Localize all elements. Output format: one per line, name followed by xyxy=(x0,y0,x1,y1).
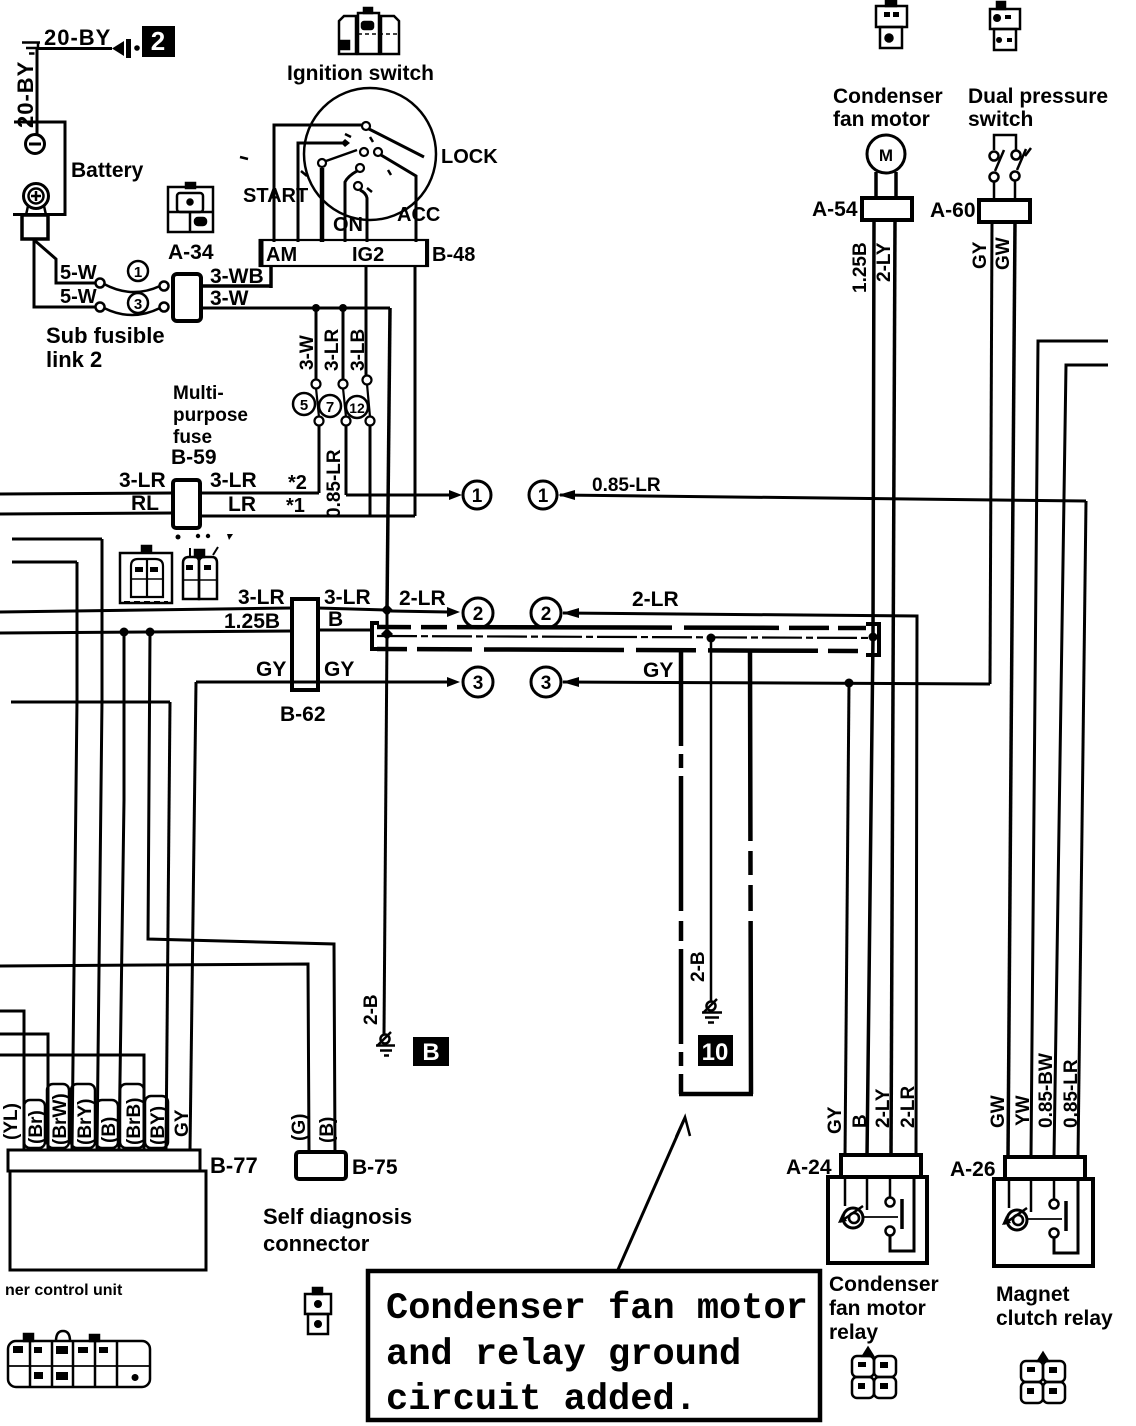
dual pressure switch S1 xyxy=(990,135,1032,200)
svg-text:2-LY: 2-LY xyxy=(873,1088,894,1128)
svg-text:ON: ON xyxy=(333,214,363,236)
svg-text:clutch relay: clutch relay xyxy=(996,1307,1113,1330)
svg-text:fan motor: fan motor xyxy=(833,108,930,131)
node 1 circle a xyxy=(463,481,491,509)
svg-text:switch: switch xyxy=(968,108,1033,131)
wire B ground (dash-dot) xyxy=(377,636,880,638)
svg-text:5: 5 xyxy=(300,397,308,414)
added-circuit highlight left vertical xyxy=(679,651,684,1094)
svg-text:B: B xyxy=(328,608,343,631)
wire 2-LR right xyxy=(562,608,917,1157)
ignition lever LOCK xyxy=(369,129,424,157)
svg-text:1.25B: 1.25B xyxy=(224,610,280,633)
wire 0.85-LR down to A-26 xyxy=(1078,501,1086,1157)
svg-text:B: B xyxy=(422,1039,439,1066)
label 1.25B vertical xyxy=(850,242,871,293)
wire GY left of B-62 xyxy=(196,681,318,684)
svg-text:and relay ground: and relay ground xyxy=(386,1334,741,1376)
connector B-59 xyxy=(173,480,200,528)
wire 0.85-LR line1 right xyxy=(558,490,1086,501)
svg-text:1: 1 xyxy=(472,486,483,507)
label 3-LR left of B-62 xyxy=(238,586,285,609)
motor M1 condenser fan xyxy=(867,135,905,198)
svg-text:LR: LR xyxy=(228,493,256,516)
ignition position dashes xyxy=(240,134,391,192)
fusible link element 1 xyxy=(96,279,169,293)
wire 20-BY vertical xyxy=(36,49,39,135)
label 20-BY xyxy=(44,25,111,50)
svg-text:10: 10 xyxy=(702,1039,729,1066)
connector box B-48 (AM IG2) xyxy=(260,239,428,267)
node 2 circle a xyxy=(463,598,493,628)
wire YL stub xyxy=(0,1011,24,1150)
ignition center contacts xyxy=(360,148,382,156)
svg-text:IG2: IG2 xyxy=(352,244,384,266)
label AM xyxy=(266,244,297,266)
svg-text:(BrW): (BrW) xyxy=(50,1093,71,1145)
label Battery xyxy=(71,159,144,182)
label A-34 xyxy=(168,241,214,264)
label LR *1 xyxy=(228,493,305,517)
added-circuit highlight right cap xyxy=(866,624,879,655)
svg-text:1.25B: 1.25B xyxy=(850,242,871,293)
label Sub fusible link 2 xyxy=(46,323,165,372)
svg-text:(G): (G) xyxy=(289,1114,310,1141)
svg-text:3-LR: 3-LR xyxy=(210,469,257,492)
label B-59 xyxy=(171,446,217,469)
svg-text:1: 1 xyxy=(538,486,549,507)
label 3-LR *2 xyxy=(210,469,307,494)
fuse 7 xyxy=(339,380,351,426)
svg-text:GY: GY xyxy=(970,241,991,269)
added-circuit highlight bottom xyxy=(679,1092,753,1097)
label 3-W vertical xyxy=(297,335,318,370)
battery negative terminal xyxy=(26,135,45,154)
wire 1.25B motor down xyxy=(867,220,874,1157)
label GW at A-26 xyxy=(988,1095,1009,1128)
svg-text:YW: YW xyxy=(1013,1095,1034,1126)
svg-text:2-LY: 2-LY xyxy=(874,242,895,282)
junction dot 1.25B/B-77 B xyxy=(120,628,129,637)
wire 1.25B into B-62 xyxy=(0,631,292,633)
svg-text:3: 3 xyxy=(473,673,484,694)
svg-text:3: 3 xyxy=(134,296,142,313)
svg-text:2-LR: 2-LR xyxy=(898,1086,919,1129)
svg-text:Sub fusible: Sub fusible xyxy=(46,323,165,348)
svg-text:A-60: A-60 xyxy=(930,199,976,222)
svg-text:GW: GW xyxy=(988,1095,1009,1128)
wire 3-W branch vertical xyxy=(315,308,318,380)
label 3-LR vertical xyxy=(322,329,343,372)
svg-text:(Br): (Br) xyxy=(26,1110,47,1144)
svg-text:Dual pressure: Dual pressure xyxy=(968,85,1108,108)
svg-text:purpose: purpose xyxy=(173,405,248,426)
wire fuse12 out to *1 xyxy=(369,425,372,516)
wire B vertical to B-77 xyxy=(119,632,124,1150)
wire line1 left segment xyxy=(346,490,462,500)
svg-text:*1: *1 xyxy=(286,495,305,517)
wire 5-W upper xyxy=(33,239,96,283)
wire Br stub xyxy=(0,1034,48,1150)
svg-text:A-34: A-34 xyxy=(168,241,214,264)
control unit box xyxy=(10,1171,206,1270)
note text xyxy=(386,1288,808,1421)
circled fuse number 5 xyxy=(293,393,315,415)
wire START contact xyxy=(298,139,350,242)
svg-text:(BrB): (BrB) xyxy=(124,1098,145,1146)
svg-text:circuit added.: circuit added. xyxy=(386,1379,697,1421)
battery frame xyxy=(13,122,65,215)
circled fuse number 12 xyxy=(346,396,368,418)
wire 3-LR branch vertical xyxy=(342,308,345,380)
wire BrW vertical xyxy=(72,562,77,1150)
label (BY) boxed xyxy=(145,1096,169,1148)
label GY vertical xyxy=(970,241,991,269)
label Ignition switch xyxy=(287,62,434,85)
label 2-LR xyxy=(399,587,446,610)
connector icon ignition switch xyxy=(339,8,399,54)
ignition switch circle xyxy=(304,88,436,220)
relay K1 condenser fan motor relay box xyxy=(828,1177,927,1263)
svg-text:A-26: A-26 xyxy=(950,1158,996,1181)
wire 20-BY horizontal xyxy=(38,47,112,50)
wire RL left feed xyxy=(0,513,173,514)
battery positive terminal xyxy=(24,184,49,216)
svg-text:link 2: link 2 xyxy=(46,347,102,372)
label (YL) xyxy=(1,1103,22,1140)
label LOCK xyxy=(441,146,498,168)
connector A-26 xyxy=(1005,1157,1085,1179)
label GW vertical xyxy=(993,237,1014,270)
label IG2 xyxy=(352,244,384,266)
svg-text:Magnet: Magnet xyxy=(996,1283,1070,1306)
label RL xyxy=(131,492,159,515)
wire fuse7 out to line1 xyxy=(345,425,348,495)
label 2-B right xyxy=(688,951,709,982)
wire GY dual pressure down xyxy=(990,222,992,684)
label (B) at B-75 xyxy=(317,1117,338,1143)
wire stub to BrY xyxy=(12,538,102,541)
svg-text:START: START xyxy=(243,185,308,207)
added-circuit highlight top line xyxy=(377,627,866,628)
svg-text:GW: GW xyxy=(993,237,1014,270)
svg-text:LOCK: LOCK xyxy=(441,146,498,168)
label 1.25B xyxy=(224,610,280,633)
label GY at A-24 xyxy=(825,1106,846,1134)
svg-text:Battery: Battery xyxy=(71,159,144,182)
wire LR *1 xyxy=(200,515,415,518)
label 0.85-LR line1 xyxy=(592,475,661,496)
label (BrY) boxed xyxy=(71,1084,96,1148)
wire IG2 down xyxy=(365,266,368,376)
label GY line3 xyxy=(643,659,673,682)
svg-text:fuse: fuse xyxy=(173,427,212,448)
svg-text:20-BY: 20-BY xyxy=(13,61,38,128)
connector icon above condenser fan motor xyxy=(876,0,907,48)
svg-text:(YL): (YL) xyxy=(1,1103,22,1140)
ground 2-B right xyxy=(702,999,722,1023)
wire 3-LR out of B-62 xyxy=(318,608,387,610)
wire 0.85-BW stub right xyxy=(1054,365,1108,1157)
connector icon A-34 xyxy=(168,183,213,232)
svg-text:A-54: A-54 xyxy=(812,198,858,221)
wire 2-B right down xyxy=(710,638,713,1001)
svg-text:GY: GY xyxy=(256,658,286,681)
label YW at A-26 xyxy=(1013,1095,1034,1126)
label Condenser fan motor xyxy=(833,85,943,131)
svg-text:B-77: B-77 xyxy=(210,1153,258,1178)
ground 2-B left xyxy=(376,1032,395,1056)
label GY right xyxy=(324,658,354,681)
junction dot 3-W/fuse5 xyxy=(312,304,320,312)
label (B) boxed xyxy=(96,1100,120,1148)
svg-text:Multi-: Multi- xyxy=(173,383,224,404)
label Condenser fan motor relay xyxy=(829,1273,939,1344)
label 3-WB xyxy=(210,265,264,288)
wire 3-LR left feed xyxy=(0,493,173,494)
svg-text:ACC: ACC xyxy=(397,204,440,226)
svg-text:GY: GY xyxy=(643,659,673,682)
node marker 2 (black box) xyxy=(142,26,175,57)
label B-75 xyxy=(352,1156,398,1179)
label (Br) boxed xyxy=(24,1100,47,1148)
fusible link element 3 xyxy=(96,303,169,316)
svg-text:5-W: 5-W xyxy=(60,286,97,308)
svg-text:3-LR: 3-LR xyxy=(322,329,343,372)
label B at A-24 xyxy=(850,1114,871,1128)
svg-text:GY: GY xyxy=(825,1106,846,1134)
label B-62 xyxy=(280,703,326,726)
label (BrW) boxed xyxy=(47,1084,71,1148)
node 3 circle a xyxy=(463,667,493,697)
label Dual pressure switch xyxy=(968,85,1108,131)
svg-text:2: 2 xyxy=(473,604,484,625)
wire BrB stub xyxy=(0,1055,144,1150)
relay K2 magnet clutch relay box xyxy=(994,1179,1093,1266)
wire GY down to A-24 xyxy=(845,683,849,1157)
added-circuit highlight bottom line xyxy=(377,649,866,651)
svg-text:2: 2 xyxy=(151,26,165,56)
label 2-LY at A-24 xyxy=(873,1088,894,1128)
svg-text:3-LR: 3-LR xyxy=(324,586,371,609)
svg-text:5-W: 5-W xyxy=(60,262,97,284)
connector B-77 xyxy=(8,1150,200,1171)
svg-text:B: B xyxy=(850,1114,871,1128)
svg-text:A-24: A-24 xyxy=(786,1156,832,1179)
wire ACC xyxy=(381,155,416,242)
label 20-BY vertical xyxy=(13,61,38,128)
svg-text:*2: *2 xyxy=(288,472,307,494)
relay K2 internals xyxy=(1002,1179,1078,1253)
wire 5-W lower xyxy=(34,239,96,307)
wire 3-LR *2 xyxy=(200,492,319,495)
connector B-62 xyxy=(292,599,318,690)
wire ACC down to LR xyxy=(414,267,417,516)
label B-77 xyxy=(210,1153,258,1178)
circled number 3 xyxy=(128,293,148,313)
svg-text:M: M xyxy=(879,146,893,165)
wire GW dual pressure down xyxy=(1008,222,1015,1157)
wire AM to LOCK contact xyxy=(274,122,370,242)
junction dot 1.25B/B-75 B xyxy=(146,628,155,637)
label GY at B-77 xyxy=(172,1109,193,1137)
label 3-LR left xyxy=(119,469,166,492)
connector A-60 xyxy=(979,200,1030,222)
node 2 circle b xyxy=(531,598,561,628)
wire BY stub xyxy=(11,701,170,704)
label 5-W upper xyxy=(60,262,97,284)
svg-text:GY: GY xyxy=(324,658,354,681)
wire B to B-75 xyxy=(148,632,335,1152)
svg-text:2-B: 2-B xyxy=(688,951,709,982)
wire 2-B left down xyxy=(384,634,387,1034)
svg-text:AM: AM xyxy=(266,244,297,266)
svg-text:2-LR: 2-LR xyxy=(632,588,679,611)
svg-text:3-W: 3-W xyxy=(210,287,249,310)
svg-text:B-59: B-59 xyxy=(171,446,217,469)
ground G1 (20-BY body ground) xyxy=(22,42,40,54)
wire 3-W xyxy=(201,307,390,310)
svg-text:(BY): (BY) xyxy=(148,1106,169,1145)
svg-text:connector: connector xyxy=(263,1231,370,1256)
svg-text:GY: GY xyxy=(172,1109,193,1137)
label control unit xyxy=(5,1282,123,1299)
wire 3-WB xyxy=(201,266,271,288)
node 3 circle b xyxy=(531,667,561,697)
svg-text:0.85-LR: 0.85-LR xyxy=(592,475,661,496)
wire IG2 contact xyxy=(354,182,367,242)
svg-text:2: 2 xyxy=(541,604,552,625)
label A-26 xyxy=(950,1158,996,1181)
label B-48 xyxy=(432,244,475,266)
label 5-W lower xyxy=(60,286,97,308)
svg-text:3: 3 xyxy=(541,673,552,694)
svg-text:0.85-BW: 0.85-BW xyxy=(1036,1053,1057,1128)
node marker 10 (black box) xyxy=(698,1035,733,1066)
note arrow xyxy=(617,1117,690,1272)
connector icon above 3-LR (right) xyxy=(176,534,234,599)
wire GY line3 right xyxy=(562,677,990,687)
wire 2-LR to node 2 xyxy=(391,607,460,617)
fuse 12 xyxy=(363,376,375,426)
connector A-24 xyxy=(841,1155,921,1177)
wire GY B-62 to B-77 xyxy=(190,682,196,1150)
svg-text:2-LR: 2-LR xyxy=(399,587,446,610)
note box xyxy=(368,1271,820,1420)
junction dot capsule/2-B right xyxy=(707,634,716,643)
svg-text:B-48: B-48 xyxy=(432,244,475,266)
svg-text:0.85-LR: 0.85-LR xyxy=(1061,1059,1082,1128)
label 2-LY vertical xyxy=(874,242,895,282)
svg-text:2-B: 2-B xyxy=(361,994,382,1025)
added-circuit highlight left cap xyxy=(372,623,379,649)
label 2-B left xyxy=(361,994,382,1025)
node 1 circle b xyxy=(529,481,557,509)
svg-text:B-75: B-75 xyxy=(352,1156,398,1179)
svg-text:ner control unit: ner control unit xyxy=(5,1282,123,1299)
label ON xyxy=(333,214,363,236)
label A-60 xyxy=(930,199,976,222)
wire GY B-62 to node 3 xyxy=(318,677,460,687)
label 3-LR right of B-62 xyxy=(324,586,371,609)
label (G) xyxy=(289,1114,310,1141)
svg-text:1: 1 xyxy=(134,264,142,281)
label 2-LR at A-24 xyxy=(898,1086,919,1129)
junction dot capsule/1.25B xyxy=(869,633,878,642)
junction dot GY/A-24 xyxy=(845,679,854,688)
svg-text:7: 7 xyxy=(326,399,334,416)
battery base box xyxy=(22,215,48,239)
svg-text:3-LR: 3-LR xyxy=(119,469,166,492)
wire stub to BrW xyxy=(12,561,77,564)
label 0.85-BW at A-26 xyxy=(1036,1053,1057,1128)
label Self diagnosis connector xyxy=(263,1204,412,1256)
wire 3-LR into B-62 xyxy=(0,608,292,612)
wire G stub to B-75 xyxy=(0,964,309,1152)
sub fusible link box xyxy=(173,274,201,321)
connector B-75 xyxy=(296,1152,346,1179)
connector icon above dual pressure switch xyxy=(990,2,1020,50)
wire 2-LY motor down xyxy=(891,220,895,1157)
label 2-LR right xyxy=(632,588,679,611)
circled number 1 xyxy=(128,261,148,281)
svg-text:relay: relay xyxy=(829,1321,878,1344)
svg-text:3-W: 3-W xyxy=(297,335,318,370)
label GY left xyxy=(256,658,286,681)
junction diamond 2-B left xyxy=(381,610,393,640)
wire IG1 contact xyxy=(345,164,364,242)
svg-text:(B): (B) xyxy=(317,1117,338,1143)
junction dot 3-W/fuse7 xyxy=(339,304,347,312)
label 0.85-LR at A-26 xyxy=(1061,1059,1082,1128)
wire BY vertical xyxy=(166,702,170,1150)
relay K1 internals xyxy=(838,1177,914,1251)
wire 3-W down to 2-LR junction xyxy=(387,308,390,610)
label 3-LB vertical xyxy=(348,329,369,371)
added-circuit highlight right vertical xyxy=(750,651,751,1094)
label ACC xyxy=(397,204,440,226)
label Magnet clutch relay xyxy=(996,1283,1113,1330)
wire B out of B-62 xyxy=(318,629,372,632)
connector A-54 xyxy=(862,198,912,220)
label A-24 xyxy=(786,1156,832,1179)
connector icon self diagnosis xyxy=(305,1288,331,1334)
svg-text:20-BY: 20-BY xyxy=(44,25,111,50)
svg-text:B-62: B-62 xyxy=(280,703,326,726)
label (BrB) boxed xyxy=(120,1084,145,1148)
wire fuse5 out to *2 xyxy=(318,425,321,493)
connector J1 (inline connector symbol) xyxy=(112,39,140,58)
svg-text:fan motor: fan motor xyxy=(829,1297,926,1320)
svg-text:Ignition switch: Ignition switch xyxy=(287,62,434,85)
label Multi-purpose fuse xyxy=(173,383,248,448)
svg-text:Self diagnosis: Self diagnosis xyxy=(263,1204,412,1229)
connector icon above 3-LR (left) xyxy=(120,546,172,603)
svg-text:3-LB: 3-LB xyxy=(348,329,369,371)
label 3-W xyxy=(210,287,249,310)
label 0.85-LR vertical xyxy=(324,449,345,518)
label B right of B-62 xyxy=(328,608,343,631)
svg-text:3-LR: 3-LR xyxy=(238,586,285,609)
label A-54 xyxy=(812,198,858,221)
fuse 5 xyxy=(312,380,324,426)
label START xyxy=(243,185,308,207)
wire BrY vertical xyxy=(97,539,102,1150)
svg-text:3-WB: 3-WB xyxy=(210,265,264,288)
connector icon below A-24 relay xyxy=(852,1348,896,1398)
svg-text:12: 12 xyxy=(349,400,365,416)
circled fuse number 7 xyxy=(319,395,341,417)
